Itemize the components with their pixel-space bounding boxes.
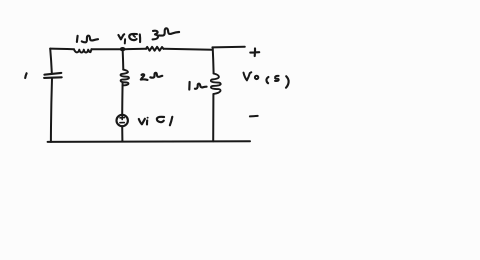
voltage source V1 circle (117, 115, 128, 126)
label Vo(s): V (244, 72, 252, 80)
label v1(s): closing bar (139, 35, 142, 43)
label Vo(s): s (275, 76, 279, 81)
label v1(s) node voltage: v (118, 34, 124, 39)
wire from R1 to node v1 (92, 48, 123, 50)
voltage source minus sign (120, 122, 124, 124)
label Vo(s): close paren (286, 76, 289, 87)
label Vi(s): closing slash (170, 117, 172, 126)
resistor R2 3-ohm (top right squiggle) (146, 47, 163, 51)
label Vi(s): s curl (157, 117, 164, 122)
wire left vertical above capacitor (50, 49, 52, 73)
wire right branch lower vertical (212, 94, 214, 141)
wire left vertical below capacitor (51, 78, 52, 142)
wire below source to bottom (121, 126, 123, 141)
label Vi(s): i dot (147, 117, 149, 119)
wire from R2 to source Vi (121, 82, 123, 114)
label Vi(s): V (139, 119, 145, 125)
wire from R3 to right branch junction (164, 49, 213, 50)
label 1-ohm (right resistor): digit 1 (188, 82, 190, 90)
wire right branch upper vertical (212, 47, 215, 73)
output minus terminal (250, 115, 258, 118)
label Vi(s): i stroke (146, 120, 148, 124)
label 2-ohm: omega (150, 73, 162, 78)
label Vo(s): o (255, 76, 258, 79)
label v1(s): open-paren s curl (129, 34, 137, 40)
label v1(s): subscript 1 (124, 39, 126, 43)
label 1-ohm (top resistor): digit 1 (76, 36, 79, 42)
voltage source plus sign (120, 116, 124, 120)
wire top-left horizontal segment (50, 48, 74, 51)
wire top-right stub to + terminal (212, 46, 244, 49)
label v1(s): curl tick (133, 36, 135, 37)
wire middle vertical from node to R2 (122, 51, 125, 70)
resistor R3 2-ohm (middle vertical squiggle) (121, 70, 129, 86)
output plus terminal (250, 48, 259, 56)
label 3-ohm: digit 3 (153, 31, 158, 40)
label Vo(s): open paren (266, 77, 268, 83)
resistor R4 1-ohm (right vertical squiggle) (211, 74, 221, 94)
label 2-ohm: digit 2 (141, 74, 148, 80)
capacitor C1 top plate (44, 73, 61, 75)
node v1 junction dot (120, 47, 126, 51)
label 3-ohm: omega (159, 28, 179, 35)
label 1-ohm (top resistor): omega (82, 36, 98, 43)
label 1 (capacitor value) (25, 73, 26, 78)
label 1-ohm (right resistor): omega (195, 84, 207, 89)
wire bottom horizontal (48, 140, 250, 143)
wire from node to R3 (125, 48, 146, 50)
resistor R1 1-ohm (top left squiggle) (74, 49, 92, 52)
capacitor C1 bottom plate (44, 76, 62, 79)
